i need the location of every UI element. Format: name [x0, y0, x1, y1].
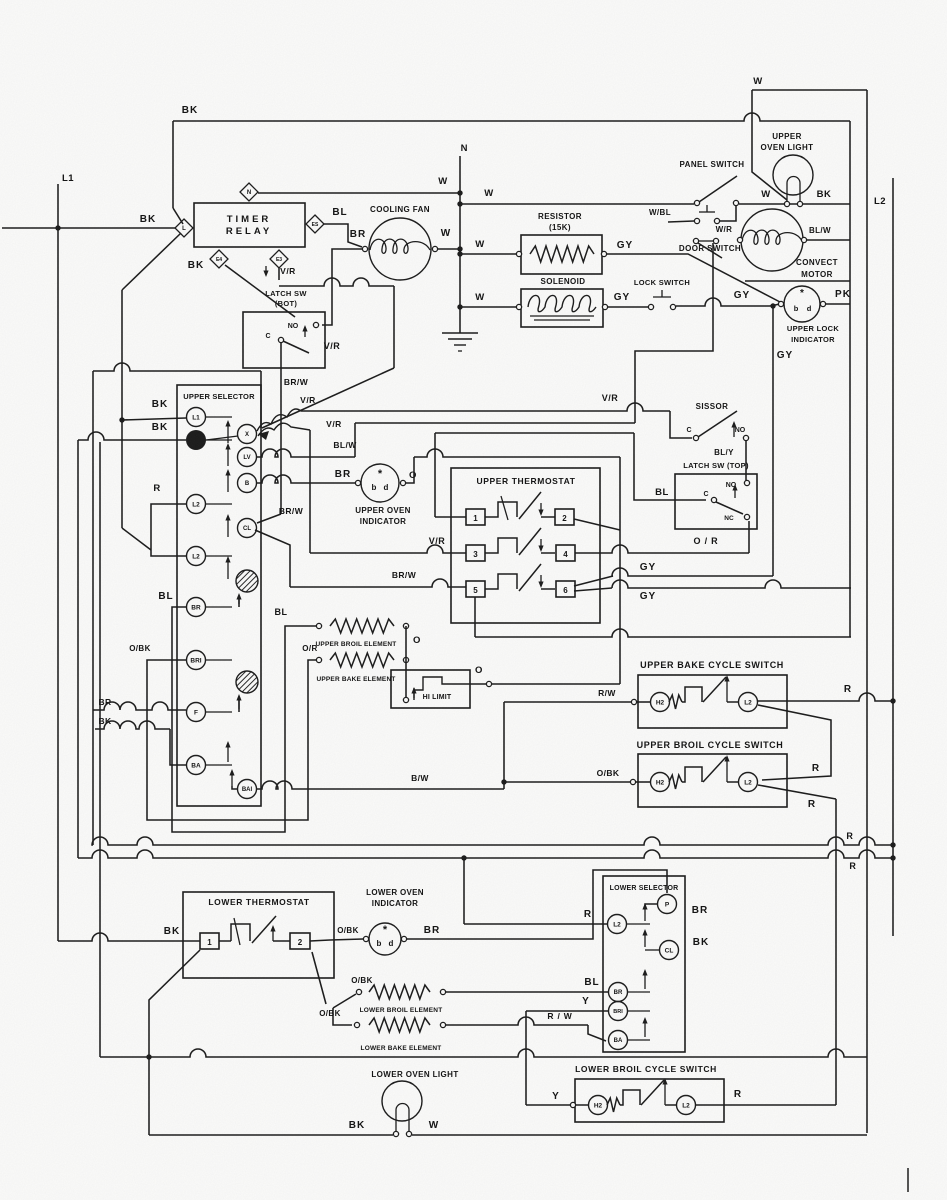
upper bake cycle switch	[651, 693, 670, 712]
upper broil element terminal	[403, 623, 408, 628]
hi limit box	[391, 670, 470, 708]
wire BR to F	[95, 702, 186, 710]
selector contact L2	[187, 495, 206, 514]
lower broil cycle switch	[589, 1096, 608, 1115]
wire BK corner left	[172, 121, 174, 208]
arrowhead into X	[258, 431, 269, 440]
lower selector box	[603, 876, 685, 1052]
wire V/R E3 run	[279, 278, 394, 286]
wire corner into L diamond	[173, 208, 183, 224]
wire BR from B	[257, 475, 356, 483]
wire resistor GY to lock indicator	[607, 254, 780, 302]
wire L1 rail	[57, 184, 59, 941]
convect motor coil	[742, 230, 802, 244]
lower broil cycle switch box	[575, 1079, 724, 1122]
latch bot NO arrow	[304, 328, 306, 337]
wire BL/W run	[355, 422, 635, 424]
scissor blade	[698, 411, 737, 437]
door switch link	[699, 240, 713, 242]
terminal diamond L	[175, 219, 193, 237]
wire enclosure right edge	[849, 121, 851, 637]
junction dot	[457, 190, 462, 195]
junction dot	[457, 251, 462, 256]
wire R bus 2	[78, 850, 893, 858]
wire rail b	[77, 440, 79, 858]
selector wiper arrow	[644, 932, 646, 947]
selector contact L2	[608, 915, 627, 934]
contact line	[206, 555, 233, 557]
wire therm1 drop diag	[149, 950, 200, 1057]
upper broil cycle switch	[651, 773, 670, 792]
wire bottom run	[100, 1049, 867, 1057]
selector wiper arrow	[644, 906, 646, 921]
thermostat row1 tick	[501, 496, 508, 520]
cooling fan coil	[370, 239, 430, 253]
wire V/R diagonal to X	[262, 368, 394, 428]
wire box5 run right	[475, 629, 851, 637]
upper broil element R	[330, 619, 394, 633]
wire R/W run lower	[446, 1017, 588, 1025]
thermostat terminal 2	[290, 933, 310, 949]
upper bake element terminal	[403, 657, 408, 662]
selector contact BRI	[187, 651, 206, 670]
wire P link	[645, 904, 658, 906]
hi limit terminal out	[486, 681, 491, 686]
solenoid coil	[528, 295, 596, 311]
lock ind terminals	[778, 301, 783, 306]
wire hi limit out	[452, 683, 486, 685]
wire Y to H2	[526, 1104, 588, 1106]
wire X feed drop	[260, 371, 262, 428]
wire box1 left	[435, 516, 466, 518]
solenoid terminal	[602, 304, 607, 309]
wire BR to lower selector P	[407, 870, 667, 939]
lower thermostat box	[183, 892, 334, 978]
solenoid underline	[530, 315, 594, 317]
thermostat terminal 1	[466, 509, 485, 525]
lower broil element terminal	[356, 989, 361, 994]
wire R out	[758, 693, 893, 701]
wire rail c	[92, 371, 94, 845]
junction dot	[890, 698, 895, 703]
selector contact LV	[238, 448, 257, 467]
door switch terminal b	[713, 238, 718, 243]
wire convect box bottom	[745, 280, 850, 282]
contact line	[628, 1010, 650, 1012]
selector contact BA	[187, 756, 206, 775]
junction dot	[457, 246, 462, 251]
contact line	[206, 503, 233, 505]
convect terminal left	[737, 237, 742, 242]
wire drop to lamp row	[148, 1057, 150, 1135]
thermostat switch row 3	[485, 588, 492, 590]
wire GY1 run	[612, 568, 773, 576]
selector wiper arrow	[227, 472, 229, 492]
thermostat terminal 3	[466, 545, 485, 561]
selector link BAI	[232, 786, 237, 789]
selector hatched contact 1	[236, 570, 258, 592]
lamp terminals	[784, 201, 789, 206]
wire E4 blade	[225, 265, 295, 317]
wire GY2 run	[612, 580, 851, 588]
contact line	[627, 923, 650, 925]
wire O riser rail	[619, 457, 621, 684]
latch bot blade	[283, 341, 309, 353]
wire fan to N rail	[438, 248, 460, 250]
wire GY drop	[772, 306, 774, 576]
wire box6 diag GY1	[574, 576, 613, 586]
wire input to H2 b	[636, 781, 650, 783]
wire V/R run to scissor	[310, 403, 670, 411]
wire R bus 1	[92, 837, 893, 845]
contact line	[206, 439, 233, 441]
wire V/R drop	[393, 286, 395, 368]
wire O/R run	[576, 545, 749, 553]
wire BL/Y drop	[745, 441, 747, 481]
wire E3 to latch NO	[278, 268, 280, 280]
contact line	[645, 949, 659, 951]
junction dot	[890, 842, 895, 847]
wire V/R from X 2	[258, 423, 310, 436]
junction dot	[119, 417, 124, 422]
latch sw top box	[675, 474, 757, 529]
wire box1 riser	[434, 433, 436, 517]
selector link hatch1	[238, 596, 240, 607]
wire ES to fan BL	[324, 224, 362, 247]
wire broil stub	[333, 994, 356, 1008]
wire BR/W to therm 5	[290, 579, 466, 587]
selector contact P	[658, 895, 677, 914]
contact line	[206, 711, 233, 713]
wire timer L rail	[121, 290, 123, 528]
selector wiper arrow	[231, 772, 233, 786]
ground symbol	[442, 332, 478, 334]
lower oven indicator	[369, 923, 401, 955]
solenoid terminal	[516, 304, 521, 309]
selector contact L1	[187, 408, 206, 427]
wire V/R from X	[257, 409, 310, 431]
junction dot	[146, 1054, 151, 1059]
wire BR/W diag to CL	[257, 514, 281, 523]
selector contact BRI	[609, 1002, 628, 1021]
thermostat terminal 2	[555, 509, 574, 525]
wire BR corner	[93, 709, 95, 711]
wire B/W from BAI	[257, 781, 504, 789]
wire BL drop to latch C	[634, 433, 706, 500]
wire V/R drop 2	[309, 430, 311, 553]
selector contact F	[187, 703, 206, 722]
wire BK from L1 to timer	[2, 227, 176, 229]
wire to lock ind	[770, 304, 780, 306]
wire BK lamp	[149, 1134, 393, 1136]
wire R/W run	[504, 701, 632, 703]
wire BL/W from LV	[257, 449, 355, 457]
wire rail d	[99, 442, 101, 1057]
panel switch terminal b	[733, 200, 738, 205]
selector contact B	[238, 474, 257, 493]
selector wiper arrow	[644, 972, 646, 989]
wire box4 to O/R	[575, 552, 576, 554]
wire right rail W	[866, 90, 868, 1133]
wire input to H2	[637, 701, 650, 703]
upper broil cycle switch box	[638, 754, 787, 807]
cooling fan motor	[369, 218, 431, 280]
wire W from N diamond	[258, 192, 460, 194]
selector hatched contact 2	[236, 671, 258, 693]
latch bot C terminal	[278, 337, 283, 342]
thermostat terminal 4	[556, 545, 575, 561]
contact line	[206, 606, 233, 608]
wire R drop to lower selector	[463, 858, 465, 924]
thermostat terminal 1	[200, 933, 219, 949]
wire to X feed	[93, 363, 261, 371]
terminal diamond ES	[306, 215, 324, 233]
solenoid box	[521, 289, 603, 327]
selector contact BAI	[238, 780, 257, 799]
thermostat switch row 2	[485, 552, 492, 554]
wire box2 to drop	[574, 519, 620, 530]
wire W top	[752, 89, 867, 91]
selector contact BA	[609, 1031, 628, 1050]
wire L2 rail	[892, 178, 894, 936]
wire box1 top run	[435, 432, 634, 434]
wire W lamp to rail	[412, 1134, 867, 1136]
wire lock switch to lock indicator	[676, 298, 770, 306]
selector wiper arrow	[238, 697, 240, 709]
terminal diamond E3	[270, 250, 288, 268]
wire lamp row	[739, 203, 850, 205]
convect terminal right	[801, 237, 806, 242]
wire box6 diag GY2	[574, 588, 612, 591]
junction L1 tap	[55, 225, 60, 230]
door switch terminal	[693, 238, 698, 243]
selector contact X	[238, 425, 257, 444]
cycle switch input terminal	[631, 699, 636, 704]
junction dot	[890, 855, 895, 860]
panel push button	[694, 218, 699, 223]
latch top NC terminal	[744, 514, 749, 519]
lower broil element terminal	[440, 989, 445, 994]
wire stub rail	[333, 1008, 352, 1025]
junction dot	[770, 303, 775, 308]
upper bake cycle switch box	[638, 675, 787, 728]
wire CL to BR/W run	[255, 530, 290, 587]
lower broil element R	[369, 985, 430, 999]
wire V/R corner to scissor C	[670, 411, 692, 438]
selector contact CL	[660, 941, 679, 960]
wire BRI contact loop	[147, 660, 316, 820]
wire BK to black contact	[78, 432, 186, 440]
wire O to box2 drop	[492, 683, 620, 685]
wire L2a loop	[151, 504, 186, 556]
wire BK corner to BA	[170, 729, 186, 765]
cooling fan terminal right	[432, 246, 437, 251]
wire O/R up to NC	[748, 521, 750, 553]
door switch blade	[698, 243, 722, 258]
latch top blade	[716, 502, 743, 514]
wire R rail down	[835, 799, 837, 1105]
wire solenoid to lock switch	[608, 306, 648, 308]
wire N rail	[459, 156, 461, 333]
wire W to solenoid	[460, 306, 518, 308]
wire Y rail	[525, 1011, 527, 1105]
lower bake element terminal	[354, 1022, 359, 1027]
resistor R1	[530, 246, 594, 262]
upper lock indicator	[784, 286, 820, 322]
wire fan left down to latch NO	[322, 249, 362, 325]
junction dot	[457, 201, 462, 206]
lower bake element terminal	[440, 1022, 445, 1027]
terminal diamond N	[240, 183, 258, 201]
wire pushbutton link	[720, 206, 736, 221]
mark	[907, 1168, 909, 1192]
wire O/BK run	[504, 781, 630, 783]
upper selector box	[177, 385, 261, 806]
wire therm2 to indicator	[310, 939, 363, 941]
wire B/W rail	[503, 702, 505, 789]
wire W row to panel switch	[460, 203, 694, 205]
wire O to riser	[406, 457, 414, 483]
wire BL to lower BR	[446, 991, 609, 993]
selector wiper arrow	[227, 559, 229, 579]
scissor C terminal	[693, 435, 698, 440]
latch top NO terminal	[744, 480, 749, 485]
wire convect to edge	[807, 239, 850, 241]
wire L diagonal to selector rail	[122, 233, 181, 290]
contact line	[206, 764, 233, 766]
lower bake element R	[369, 1018, 430, 1032]
wire V/R to therm 3	[310, 545, 466, 553]
indicator terminals	[363, 936, 368, 941]
wire BK top run	[173, 113, 850, 121]
thermostat terminal 5	[466, 581, 485, 597]
latch top arrow	[734, 487, 736, 498]
selector wiper arrow	[227, 446, 229, 466]
upper broil element terminal	[316, 623, 321, 628]
scissor arrow	[733, 424, 735, 437]
selector contact solid	[186, 430, 206, 450]
wire L2 diag down b	[758, 785, 836, 799]
selector link hatch2	[238, 697, 240, 712]
wire BK to BA	[95, 721, 170, 729]
wire R/W corner to BA	[588, 1025, 606, 1041]
wire O run	[414, 449, 620, 457]
cooling fan terminal left	[362, 246, 367, 251]
panel switch terminal	[694, 200, 699, 205]
wire BK to therm 1	[58, 933, 200, 941]
selector contact L2	[187, 547, 206, 566]
latch bot NO terminal	[313, 322, 318, 327]
selector contact BR	[609, 983, 628, 1002]
lock switch	[648, 304, 653, 309]
timer relay box	[194, 203, 305, 247]
resistor box	[521, 235, 602, 274]
resistor R1 terminal	[601, 251, 606, 256]
wire box5 down	[474, 597, 476, 637]
contact line	[206, 416, 233, 418]
wire BR contact loop	[172, 607, 316, 832]
lamp terminals	[393, 1131, 398, 1136]
junction dot	[501, 779, 506, 784]
selector contact CL	[238, 519, 257, 538]
selector wiper arrow	[644, 1020, 646, 1037]
selector link dot-X	[206, 436, 238, 440]
junction dot	[461, 855, 466, 860]
upper thermostat box	[451, 468, 600, 623]
hi limit terminal	[403, 697, 408, 702]
input terminal	[570, 1102, 575, 1107]
arrow E3	[265, 266, 267, 274]
wire Y to BRI	[526, 1010, 608, 1012]
indicator terminals	[355, 480, 360, 485]
wire element join	[405, 626, 407, 700]
terminal diamond E4	[210, 250, 228, 268]
latch top C terminal	[711, 497, 716, 502]
contact line	[628, 1039, 650, 1041]
thermostat switch row 1	[485, 516, 492, 518]
upper oven light lamp	[773, 155, 813, 195]
selector wiper arrow	[238, 596, 240, 604]
upper oven indicator	[361, 464, 399, 502]
contact line	[206, 659, 233, 661]
wire BL/W riser to door switch	[635, 243, 713, 423]
wire L2 diag down	[758, 705, 831, 780]
upper bake element R	[330, 653, 394, 667]
convect motor	[741, 209, 803, 271]
hi limit switch	[414, 677, 452, 700]
wire W/BL stub	[668, 221, 694, 222]
wire to L1 contact	[122, 418, 186, 420]
wire BL/W up	[354, 423, 356, 457]
wire diag to L2b	[122, 528, 151, 550]
scissor NO terminal	[743, 435, 748, 440]
resistor R1 terminal	[516, 251, 521, 256]
thermostat terminal 6	[556, 581, 575, 597]
selector wiper arrow	[227, 423, 229, 443]
lower thermostat switch	[219, 940, 231, 942]
selector contact BR	[187, 598, 206, 617]
contact line	[628, 991, 650, 993]
cycle switch input terminal	[630, 779, 635, 784]
wire BR/W from latch C	[280, 343, 282, 514]
upper bake element terminal	[316, 657, 321, 662]
junction dot	[457, 304, 462, 309]
wire R out lower	[696, 1104, 836, 1106]
wire therm2 diag	[312, 952, 326, 1004]
wire W to resistor	[460, 253, 518, 255]
wire R corner	[464, 923, 608, 925]
selector wiper arrow	[227, 517, 229, 537]
wire PK to edge	[826, 303, 850, 305]
wire upper oven light feed	[752, 90, 787, 200]
lower oven light lamp	[382, 1081, 422, 1121]
selector wiper arrow	[227, 744, 229, 762]
panel switch blade	[699, 176, 737, 202]
latch sw bot box	[243, 312, 325, 368]
